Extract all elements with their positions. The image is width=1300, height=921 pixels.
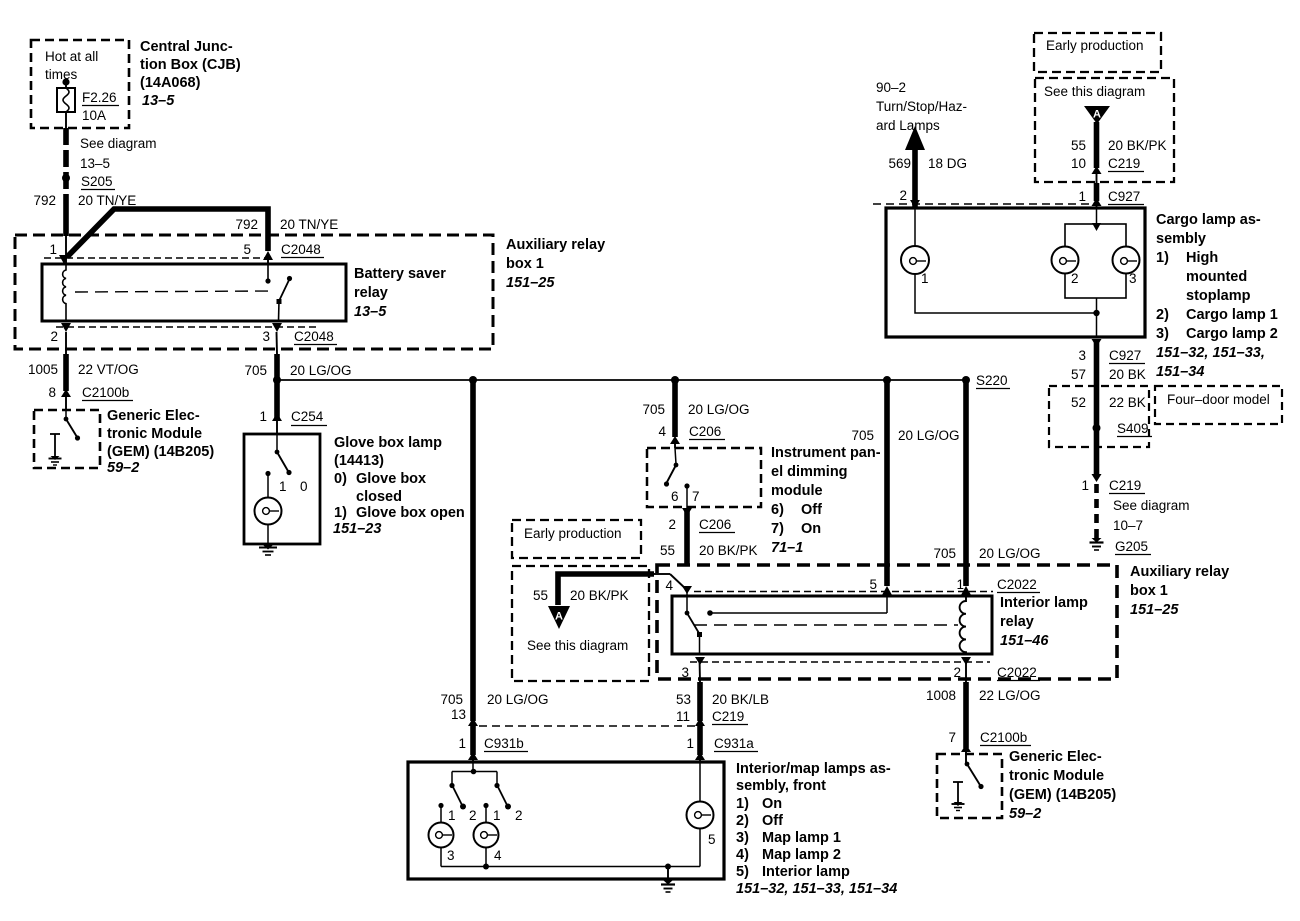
svg-text:module: module <box>771 483 823 499</box>
node splice junction at glove tap <box>273 376 281 384</box>
svg-text:55: 55 <box>1071 138 1086 153</box>
map lamp 2 bulb <box>474 823 499 848</box>
svg-text:13–5: 13–5 <box>80 156 110 171</box>
svg-text:705: 705 <box>440 692 463 707</box>
svg-text:relay: relay <box>1000 614 1034 630</box>
interior lamp 5 bulb <box>687 802 714 829</box>
wire 1008 22 LG/OG thick <box>963 682 969 748</box>
svg-text:1: 1 <box>921 271 929 286</box>
svg-text:4: 4 <box>665 578 673 593</box>
pin 3 arrow C927 <box>1092 339 1102 347</box>
pin 1 arrow at assembly <box>468 752 478 760</box>
pin 2 arrow <box>961 657 971 665</box>
wire 1005 22 VT/OG thin top <box>65 332 67 354</box>
early production dashed box (top) <box>1034 33 1161 72</box>
pin 1 arrow <box>59 255 69 264</box>
switch feed tee <box>472 762 474 771</box>
svg-text:A: A <box>1093 109 1101 121</box>
GEM internal ground pin <box>50 433 60 435</box>
connector C2048 bottom dashed line <box>56 326 318 328</box>
glove box lamp bulb <box>255 498 282 525</box>
wire 705 20 LG/OG to dimming module (thick) <box>672 380 678 437</box>
svg-text:Hot at all: Hot at all <box>45 49 98 64</box>
svg-text:Map lamp 1: Map lamp 1 <box>762 830 841 846</box>
svg-text:Generic Elec-: Generic Elec- <box>107 408 200 424</box>
svg-text:3: 3 <box>1129 271 1137 286</box>
early production dashed box <box>512 520 641 558</box>
wire dashed continuation to G205 <box>1094 484 1099 538</box>
svg-text:F2.26: F2.26 <box>82 90 117 105</box>
svg-text:3: 3 <box>681 665 689 680</box>
svg-text:2: 2 <box>469 808 477 823</box>
svg-text:20 LG/OG: 20 LG/OG <box>979 546 1041 561</box>
svg-text:tion Box (CJB): tion Box (CJB) <box>140 57 241 73</box>
relay switch pin5 contact <box>267 265 269 280</box>
relay actuation dash link <box>694 624 958 626</box>
svg-text:7: 7 <box>692 489 700 504</box>
svg-text:C931a: C931a <box>714 736 754 751</box>
inline connector arrow <box>468 718 478 726</box>
svg-text:2): 2) <box>736 813 749 829</box>
wire 53 20 BK/LB from relay pin 3 <box>699 658 702 682</box>
svg-text:10A: 10A <box>82 108 106 123</box>
svg-text:151–32, 151–33,: 151–32, 151–33, <box>1156 345 1265 361</box>
wire 1008 22 LG/OG thin <box>965 658 967 682</box>
svg-text:(14413): (14413) <box>334 453 384 469</box>
svg-text:C219: C219 <box>1108 156 1140 171</box>
pin 1 arrow at cargo box <box>1092 198 1102 206</box>
svg-text:705: 705 <box>244 363 267 378</box>
svg-text:tronic Module: tronic Module <box>107 426 202 442</box>
svg-text:57: 57 <box>1071 367 1086 382</box>
pin 1 arrow <box>961 586 971 595</box>
wire 57 20 BK thick <box>1094 342 1100 477</box>
svg-text:(14A068): (14A068) <box>140 75 201 91</box>
GEM internal switch <box>965 762 970 767</box>
svg-text:Off: Off <box>762 813 783 829</box>
svg-text:C931b: C931b <box>484 736 524 751</box>
svg-text:5: 5 <box>243 242 251 257</box>
map lamp 1 bulb <box>429 823 454 848</box>
svg-text:mounted: mounted <box>1186 269 1247 285</box>
svg-text:2): 2) <box>1156 307 1169 323</box>
wire 792 branch to pin 5 (thick bend) <box>67 209 268 257</box>
map lamp 2 contact stub <box>483 803 488 808</box>
cargo lamp assembly box <box>886 208 1145 337</box>
fuse F2.26 10A <box>57 88 75 112</box>
pin 7 arrow C2100b <box>961 744 971 752</box>
svg-text:stoplamp: stoplamp <box>1186 288 1251 304</box>
pin 5 arrow <box>263 251 273 260</box>
svg-text:2: 2 <box>899 188 907 203</box>
wire into assembly <box>699 757 701 763</box>
central junction box CJB dashed enclosure <box>31 40 129 128</box>
svg-text:8: 8 <box>48 385 56 400</box>
relay actuation dash link <box>75 291 272 292</box>
relay switch blade <box>687 613 700 634</box>
svg-text:Instrument pan-: Instrument pan- <box>771 445 881 461</box>
svg-text:1: 1 <box>1081 478 1089 493</box>
svg-text:tronic Module: tronic Module <box>1009 768 1104 784</box>
svg-text:1: 1 <box>49 242 57 257</box>
svg-text:S205: S205 <box>81 174 113 189</box>
svg-text:1: 1 <box>448 808 456 823</box>
node junction dimming drop <box>671 376 679 384</box>
four-door model dashed box <box>1155 386 1282 424</box>
svg-text:S409: S409 <box>1117 421 1149 436</box>
svg-text:1: 1 <box>686 736 694 751</box>
cargo lamp 1 bulb (2) <box>1052 247 1079 274</box>
glove lamp contact <box>265 471 270 476</box>
svg-text:705: 705 <box>642 402 665 417</box>
svg-text:1): 1) <box>1156 250 1169 266</box>
svg-text:6: 6 <box>671 489 679 504</box>
svg-text:See diagram: See diagram <box>80 136 157 151</box>
svg-text:3): 3) <box>736 830 749 846</box>
svg-text:Cargo lamp as-: Cargo lamp as- <box>1156 212 1261 228</box>
node junction C931b drop <box>469 376 477 384</box>
wire glove drop thin <box>276 418 278 434</box>
wire thin to cargo box <box>1096 170 1098 183</box>
svg-text:(GEM) (14B205): (GEM) (14B205) <box>1009 787 1116 803</box>
wire into parallel lamp loop <box>1096 208 1098 224</box>
svg-text:2: 2 <box>953 665 961 680</box>
connector C2022 bottom dashed line <box>690 661 990 663</box>
wire 55 20 BK/PK branch to arrow A <box>558 574 654 605</box>
wire 55 20 BK/PK thick <box>684 510 690 564</box>
ground (glove box) <box>263 545 273 550</box>
svg-text:Interior/map lamps as-: Interior/map lamps as- <box>736 761 891 777</box>
node junction lamp return <box>1093 310 1099 316</box>
svg-text:5): 5) <box>736 864 749 880</box>
svg-text:13–5: 13–5 <box>354 304 387 320</box>
svg-text:Glove box lamp: Glove box lamp <box>334 435 442 451</box>
generic electronic module GEM dashed box (right) <box>937 754 1002 818</box>
svg-text:G205: G205 <box>1115 539 1148 554</box>
svg-text:Glove box open: Glove box open <box>356 505 465 521</box>
map switch 1 <box>451 772 453 785</box>
svg-text:4): 4) <box>736 847 749 863</box>
GEM internal switch <box>65 410 67 418</box>
connector C2022 top dashed line <box>694 591 993 593</box>
svg-text:151–34: 151–34 <box>1156 364 1204 380</box>
auxiliary relay box 1 dashed enclosure (lower) <box>657 565 1117 679</box>
svg-text:13–5: 13–5 <box>142 93 175 109</box>
svg-text:20 LG/OG: 20 LG/OG <box>688 402 750 417</box>
svg-text:2: 2 <box>515 808 523 823</box>
svg-text:4: 4 <box>494 848 502 863</box>
svg-text:20 LG/OG: 20 LG/OG <box>487 692 549 707</box>
svg-text:Auxiliary relay: Auxiliary relay <box>1130 564 1229 580</box>
cargo lamp 1 wire top <box>914 208 916 248</box>
svg-text:Interior lamp: Interior lamp <box>762 864 850 880</box>
svg-text:sembly, front: sembly, front <box>736 778 826 794</box>
svg-text:Interior lamp: Interior lamp <box>1000 595 1088 611</box>
wire 705 bus to S220 <box>277 379 966 381</box>
pin 7 contact <box>684 483 689 488</box>
svg-text:1): 1) <box>334 505 347 521</box>
svg-text:Cargo lamp 2: Cargo lamp 2 <box>1186 326 1278 342</box>
battery saver relay box <box>42 264 346 321</box>
svg-text:Early production: Early production <box>1046 38 1144 53</box>
svg-text:Auxiliary relay: Auxiliary relay <box>506 237 605 253</box>
svg-text:705: 705 <box>851 428 874 443</box>
svg-text:20 BK/LB: 20 BK/LB <box>712 692 769 707</box>
wire lamp to ground <box>267 524 269 545</box>
off-page arrow A (down) <box>548 606 570 629</box>
svg-text:C2048: C2048 <box>294 329 334 344</box>
svg-text:el dimming: el dimming <box>771 464 848 480</box>
map lamp 1 contact stub <box>438 803 443 808</box>
svg-text:C2048: C2048 <box>281 242 321 257</box>
svg-text:20 LG/OG: 20 LG/OG <box>290 363 352 378</box>
svg-text:20 BK/PK: 20 BK/PK <box>570 588 629 603</box>
svg-text:59–2: 59–2 <box>107 460 139 476</box>
svg-text:C206: C206 <box>689 424 721 439</box>
svg-text:5: 5 <box>708 832 716 847</box>
svg-text:13: 13 <box>451 707 466 722</box>
svg-text:See diagram: See diagram <box>1113 498 1190 513</box>
wire pin1 thin drop <box>65 236 67 263</box>
wire 792 20 TN/YE from fuse (thick, dashed continuation) <box>63 128 69 204</box>
node bus dot at fuse top <box>62 78 69 85</box>
svg-text:0: 0 <box>300 479 308 494</box>
pin 1 arrow C254 <box>272 413 282 421</box>
dimming module switch <box>675 448 676 464</box>
relay coil (battery saver) <box>63 264 66 321</box>
svg-text:On: On <box>762 796 782 812</box>
generic electronic module GEM dashed box (left) <box>34 410 100 468</box>
svg-text:C2022: C2022 <box>997 577 1037 592</box>
pin 1 arrow at assembly <box>695 752 705 760</box>
svg-text:2: 2 <box>1071 271 1079 286</box>
wire glove drop thick <box>274 380 280 418</box>
see this diagram dashed box (top) <box>1035 78 1174 182</box>
svg-text:1008: 1008 <box>926 688 956 703</box>
wire pin2 big arrow 90-2 <box>905 126 925 150</box>
svg-text:569: 569 <box>888 156 911 171</box>
relay coil (interior lamp) <box>960 592 966 654</box>
arrow into lamp loop <box>1092 223 1101 231</box>
map switch 2 <box>496 772 498 785</box>
svg-text:20 BK/PK: 20 BK/PK <box>699 543 758 558</box>
svg-text:C2100b: C2100b <box>980 730 1027 745</box>
svg-text:C206: C206 <box>699 517 731 532</box>
svg-text:3: 3 <box>262 329 270 344</box>
glove box lamp box <box>244 434 320 544</box>
svg-text:20 LG/OG: 20 LG/OG <box>898 428 960 443</box>
svg-text:792: 792 <box>33 193 56 208</box>
svg-text:2: 2 <box>668 517 676 532</box>
svg-text:C927: C927 <box>1108 189 1140 204</box>
svg-text:10: 10 <box>1071 156 1086 171</box>
svg-text:3: 3 <box>447 848 455 863</box>
svg-text:10–7: 10–7 <box>1113 518 1143 533</box>
wire fuse feed <box>65 82 67 128</box>
wire 705 pin3 thin <box>276 332 279 354</box>
svg-text:55: 55 <box>533 588 548 603</box>
svg-text:22 BK: 22 BK <box>1109 395 1146 410</box>
GEM internal ground pin <box>953 781 963 783</box>
svg-text:(GEM) (14B205): (GEM) (14B205) <box>107 444 214 460</box>
svg-text:1005: 1005 <box>28 362 58 377</box>
ground (interior/map lamps) <box>667 867 669 880</box>
svg-text:closed: closed <box>356 489 402 505</box>
svg-text:C219: C219 <box>712 709 744 724</box>
svg-text:151–23: 151–23 <box>333 521 381 537</box>
wire loop bottom to pin 3 <box>1096 298 1098 337</box>
wire lamp1 bottom <box>915 274 1096 313</box>
svg-text:relay: relay <box>354 285 388 301</box>
svg-text:90–2: 90–2 <box>876 80 906 95</box>
svg-text:22 VT/OG: 22 VT/OG <box>78 362 139 377</box>
pin 2 arrow <box>61 323 71 332</box>
svg-text:18 DG: 18 DG <box>928 156 967 171</box>
svg-text:Cargo lamp 1: Cargo lamp 1 <box>1186 307 1278 323</box>
relay pin5 internal wire <box>886 590 888 613</box>
svg-text:1: 1 <box>493 808 501 823</box>
svg-text:A: A <box>555 611 563 623</box>
wire C931b segment (thick) <box>470 726 476 755</box>
svg-text:Turn/Stop/Haz-: Turn/Stop/Haz- <box>876 99 967 114</box>
ground G205 <box>1092 538 1102 543</box>
wire 55 20 BK/PK thick <box>1094 122 1100 168</box>
pin 10 arrow C219 <box>1092 166 1102 174</box>
svg-text:3: 3 <box>1078 348 1086 363</box>
node junction lamp4 <box>483 864 489 870</box>
svg-text:Battery saver: Battery saver <box>354 266 446 282</box>
off-page arrow A (down) <box>1084 106 1110 124</box>
svg-text:See this diagram: See this diagram <box>527 638 628 653</box>
pin 1 arrow C219 <box>1092 474 1102 482</box>
svg-text:1): 1) <box>736 796 749 812</box>
svg-text:4: 4 <box>658 424 666 439</box>
svg-text:11: 11 <box>676 709 690 724</box>
svg-text:7): 7) <box>771 521 784 537</box>
wire 705 to relay pin 1 (thick) <box>963 380 969 586</box>
svg-text:20 TN/YE: 20 TN/YE <box>280 217 338 232</box>
pin 8 arrow <box>61 389 71 397</box>
wire 1005 22 VT/OG thick <box>63 354 69 391</box>
svg-text:55: 55 <box>660 543 675 558</box>
svg-text:151–32, 151–33, 151–34: 151–32, 151–33, 151–34 <box>736 881 897 897</box>
svg-text:sembly: sembly <box>1156 231 1206 247</box>
auxiliary relay box 1 dashed enclosure <box>15 235 493 349</box>
instrument panel dimming module dashed box <box>647 448 761 507</box>
svg-text:22 LG/OG: 22 LG/OG <box>979 688 1041 703</box>
pin 4 arrow <box>682 586 692 594</box>
svg-text:71–1: 71–1 <box>771 540 803 556</box>
see this diagram dashed box <box>512 566 649 681</box>
svg-text:C2022: C2022 <box>997 665 1037 680</box>
pin 2 arrow at cargo box <box>910 200 920 208</box>
inline connector arrow <box>695 718 705 726</box>
interior lamp 5 wire <box>699 762 701 801</box>
interior lamp relay box <box>672 596 992 654</box>
svg-text:S220: S220 <box>976 373 1008 388</box>
wire into GEM <box>65 395 67 410</box>
svg-text:Early production: Early production <box>524 526 622 541</box>
connector C2048 top dashed line <box>44 257 270 259</box>
wire into GEM right <box>965 748 967 763</box>
svg-text:1: 1 <box>956 577 964 592</box>
svg-text:20 BK/PK: 20 BK/PK <box>1108 138 1167 153</box>
wire C931a segment (thick) <box>697 726 703 755</box>
node junction relay pin5 drop <box>883 376 891 384</box>
svg-text:box 1: box 1 <box>1130 583 1168 599</box>
splice S409 <box>1093 424 1101 432</box>
relay switch pin4 wire <box>686 590 688 612</box>
svg-text:Four–door model: Four–door model <box>1167 392 1270 407</box>
svg-text:20 TN/YE: 20 TN/YE <box>78 193 136 208</box>
svg-text:times: times <box>45 67 78 82</box>
relay switch blade <box>287 276 292 281</box>
svg-text:1: 1 <box>458 736 466 751</box>
svg-text:6): 6) <box>771 502 784 518</box>
pin 3 arrow <box>272 323 282 332</box>
svg-text:Map lamp 2: Map lamp 2 <box>762 847 841 863</box>
parallel lamp loop box <box>1065 224 1126 298</box>
wire 705 20 LG/OG long drop (thick) <box>470 380 476 721</box>
svg-text:C219: C219 <box>1109 478 1141 493</box>
svg-text:box 1: box 1 <box>506 256 544 272</box>
cargo lamp 2 bulb (3) <box>1113 247 1140 274</box>
svg-text:See this diagram: See this diagram <box>1044 84 1145 99</box>
svg-text:151–25: 151–25 <box>506 275 555 291</box>
ground bus wire <box>440 848 442 867</box>
pin 2 arrow C206 <box>682 508 692 516</box>
svg-text:59–2: 59–2 <box>1009 806 1041 822</box>
svg-text:1: 1 <box>259 409 267 424</box>
svg-text:792: 792 <box>235 217 258 232</box>
wire into assembly <box>472 757 474 763</box>
pin 4 arrow <box>670 436 680 444</box>
inline connector dashed line C931 <box>479 725 699 727</box>
high mounted stoplamp bulb 1 <box>901 246 929 274</box>
svg-text:3): 3) <box>1156 326 1169 342</box>
wire 705 20 LG/OG thick <box>274 354 280 380</box>
wire blade to pin 3 <box>278 301 281 321</box>
svg-text:Central Junc-: Central Junc- <box>140 39 233 55</box>
svg-text:ard Lamps: ard Lamps <box>876 118 940 133</box>
connector C927 dashed line <box>873 203 1093 205</box>
svg-text:20 BK: 20 BK <box>1109 367 1146 382</box>
svg-text:C254: C254 <box>291 409 324 424</box>
pin 5 arrow <box>882 586 892 595</box>
svg-text:Generic Elec-: Generic Elec- <box>1009 749 1102 765</box>
svg-text:High: High <box>1186 250 1218 266</box>
wire 705 to relay pin 5 (thick) <box>884 380 890 586</box>
svg-text:2: 2 <box>50 329 58 344</box>
svg-text:53: 53 <box>676 692 691 707</box>
svg-text:On: On <box>801 521 821 537</box>
splice S220 <box>962 376 970 384</box>
svg-text:7: 7 <box>948 730 956 745</box>
svg-text:5: 5 <box>869 577 877 592</box>
svg-text:705: 705 <box>933 546 956 561</box>
glove switch <box>276 434 278 451</box>
wire pin5 thin drop <box>267 255 269 265</box>
svg-text:1: 1 <box>1078 189 1086 204</box>
node junction ground tap <box>665 864 671 870</box>
svg-text:C927: C927 <box>1109 348 1141 363</box>
svg-text:C2100b: C2100b <box>82 385 129 400</box>
svg-text:Off: Off <box>801 502 822 518</box>
svg-text:151–25: 151–25 <box>1130 602 1179 618</box>
pin 3 arrow <box>695 657 705 665</box>
svg-text:Glove box: Glove box <box>356 471 426 487</box>
interior/map lamps assembly box <box>408 762 724 879</box>
